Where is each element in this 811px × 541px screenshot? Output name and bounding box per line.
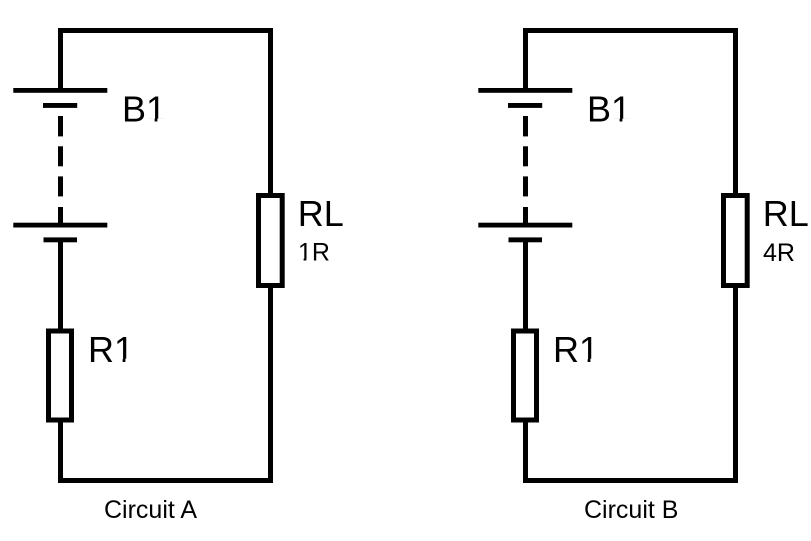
battery B1 (Circuit B) [478, 88, 572, 242]
resistor RL (Circuit B) [724, 196, 748, 286]
wire: top rail (Circuit A) [58, 28, 273, 33]
svg-text:B1: B1 [122, 89, 166, 130]
svg-text:RL: RL [298, 193, 344, 234]
svg-text:4R: 4R [763, 239, 795, 267]
wire: RL to bottom rail (Circuit A) [268, 287, 273, 483]
svg-text:1R: 1R [298, 239, 330, 267]
svg-text:R1: R1 [88, 329, 134, 370]
wire: right rail upper segment, top rail to RL (Circuit A) [268, 28, 273, 194]
svg-text:B1: B1 [587, 89, 631, 130]
svg-text:R1: R1 [553, 329, 599, 370]
svg-text:Circuit A: Circuit A [104, 496, 197, 524]
wire: bottom rail (Circuit A) [58, 478, 273, 483]
wire: left rail upper segment, top rail to battery (Circuit A) [58, 28, 63, 88]
svg-text:RL: RL [763, 193, 809, 234]
wire: top rail (Circuit B) [523, 28, 738, 33]
svg-text:Circuit B: Circuit B [584, 496, 678, 524]
wire: right rail upper segment, top rail to RL (Circuit B) [733, 28, 738, 194]
wire: left rail upper segment, top rail to battery (Circuit B) [523, 28, 528, 88]
resistor R1 (Circuit A) [49, 331, 72, 420]
wire: R1 to bottom rail (Circuit A) [58, 422, 63, 483]
wire: battery to R1 (Circuit A) [58, 242, 63, 329]
wire: battery to R1 (Circuit B) [523, 242, 528, 329]
wire: R1 to bottom rail (Circuit B) [523, 422, 528, 483]
wire: bottom rail (Circuit B) [523, 478, 738, 483]
battery B1 (Circuit A) [13, 88, 107, 242]
wire: RL to bottom rail (Circuit B) [733, 287, 738, 483]
resistor R1 (Circuit B) [514, 331, 537, 420]
resistor RL (Circuit A) [259, 196, 283, 286]
